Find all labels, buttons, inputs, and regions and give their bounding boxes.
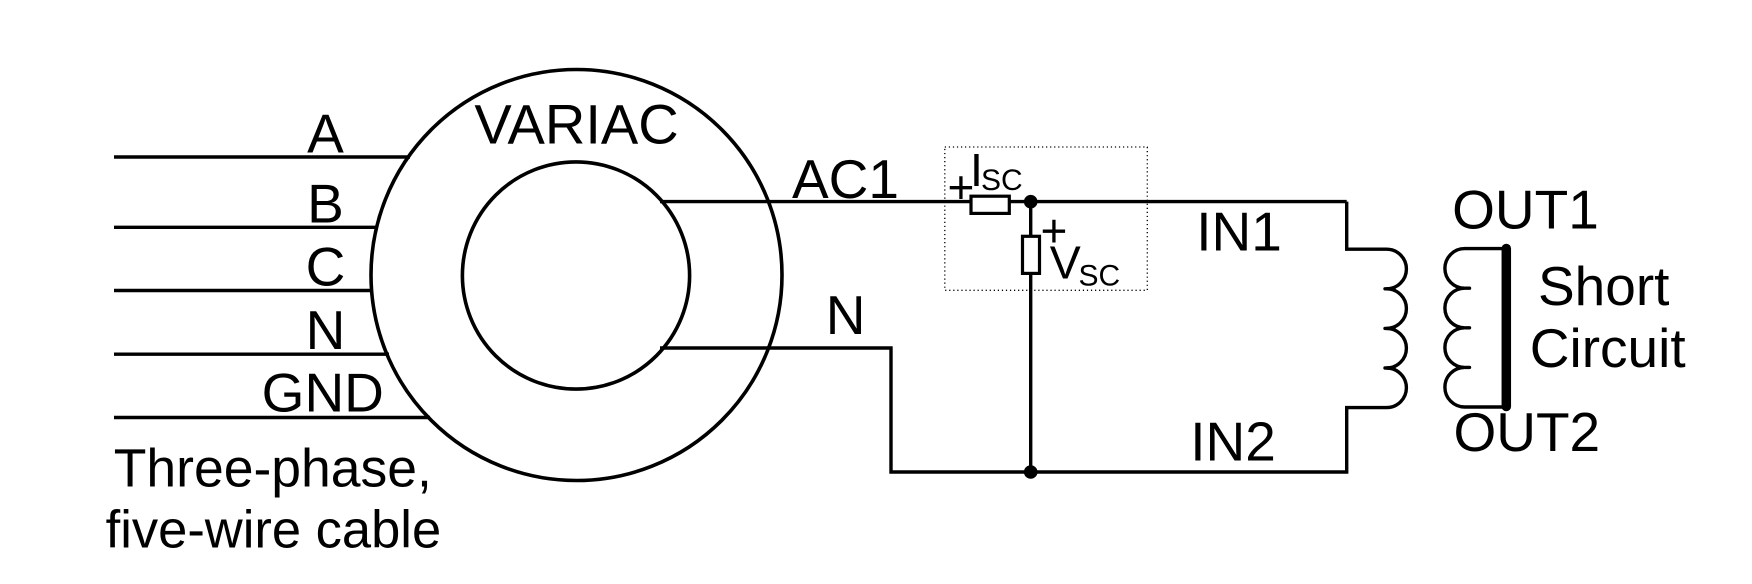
- coil L2 cusp tick 3: [1466, 366, 1470, 369]
- svg-text:OUT1: OUT1: [1452, 178, 1599, 240]
- svg-text:AC1: AC1: [792, 148, 899, 210]
- svg-text:GND: GND: [262, 362, 384, 424]
- svg-text:OUT2: OUT2: [1453, 401, 1600, 463]
- junction node on AC1: [1024, 195, 1038, 209]
- coil L2 cusp tick 2: [1466, 326, 1470, 329]
- secondary winding L2: [1445, 249, 1507, 407]
- variac T1 inner circle: [462, 162, 689, 389]
- coil L1 cusp tick 1: [1385, 287, 1394, 290]
- svg-text:Short: Short: [1538, 255, 1669, 317]
- svg-text:IN2: IN2: [1190, 410, 1276, 472]
- svg-text:V: V: [1050, 237, 1081, 289]
- svg-text:VARIAC: VARIAC: [474, 93, 678, 156]
- wire phase C: [114, 289, 373, 292]
- wire phase B: [114, 226, 378, 229]
- wire neutral N: [114, 353, 389, 356]
- svg-text:five-wire cable: five-wire cable: [106, 501, 442, 560]
- svg-text:N: N: [826, 284, 866, 346]
- wire phase A: [114, 155, 410, 158]
- svg-text:SC: SC: [981, 164, 1023, 197]
- svg-text:IN1: IN1: [1196, 201, 1282, 263]
- wire GND: [114, 416, 430, 419]
- short circuit bar: [1502, 249, 1512, 407]
- coil L1 cusp tick 3: [1385, 366, 1394, 369]
- wire AC1 net: [660, 200, 1347, 203]
- wire Vsc branch: [1029, 202, 1032, 472]
- resistor Vsc body: [1023, 236, 1040, 273]
- measurement dotted box: [945, 147, 1148, 290]
- junction node on IN2: [1024, 465, 1038, 479]
- svg-text:N: N: [306, 299, 346, 361]
- shunt resistor Isc body: [971, 196, 1009, 213]
- svg-text:Circuit: Circuit: [1530, 317, 1686, 379]
- wire IN1 net with primary winding L1: [660, 202, 1406, 472]
- svg-text:SC: SC: [1079, 260, 1121, 293]
- svg-text:C: C: [306, 236, 346, 298]
- variac T1 outer circle: [371, 70, 782, 481]
- svg-text:Three-phase,: Three-phase,: [114, 439, 432, 498]
- coil L2 cusp tick 1: [1466, 287, 1470, 290]
- svg-text:B: B: [307, 172, 344, 234]
- coil L1 cusp tick 2: [1385, 327, 1394, 330]
- svg-text:A: A: [307, 102, 344, 164]
